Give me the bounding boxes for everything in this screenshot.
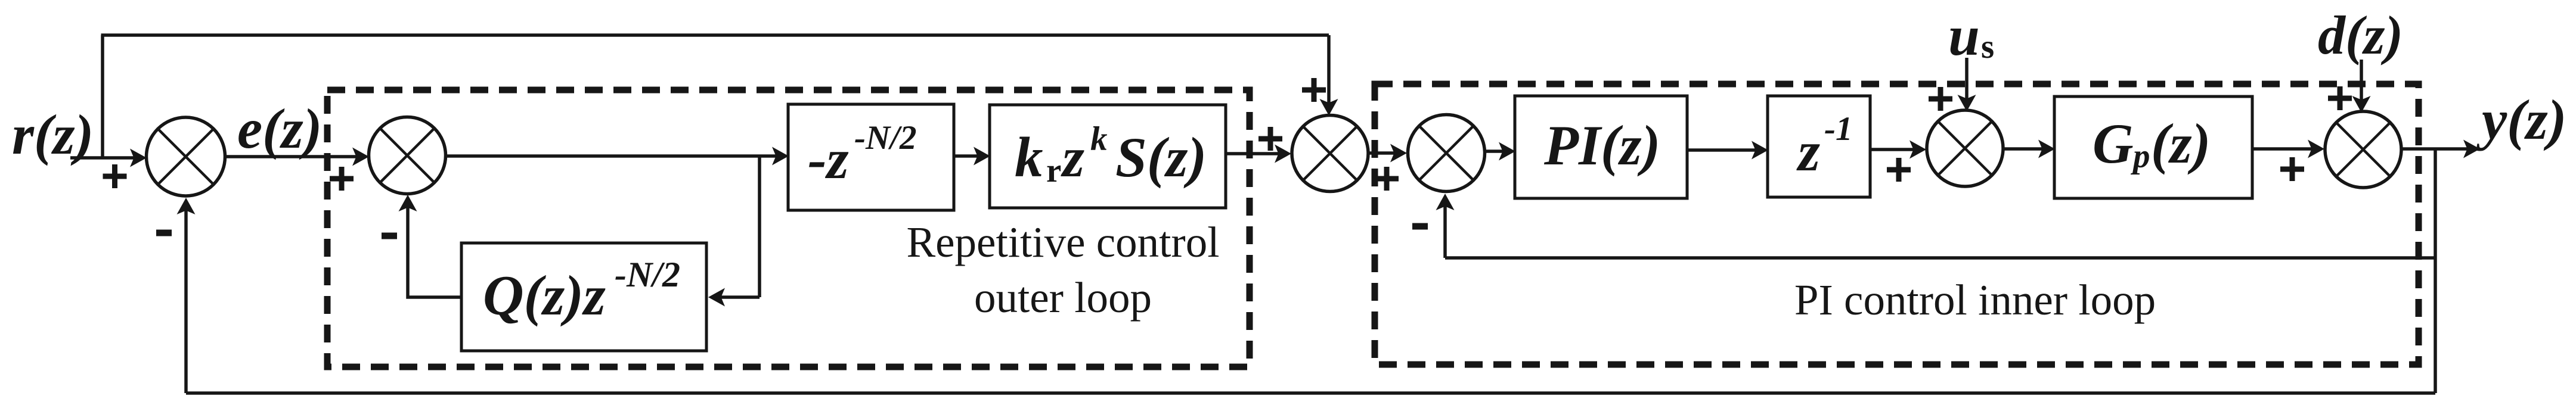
arrow into sum3	[1275, 145, 1291, 163]
arrowheads	[130, 95, 2480, 307]
arrow into sum6	[2308, 140, 2324, 158]
plus at sum5 input	[1887, 158, 1911, 182]
svg-text:-N/2: -N/2	[854, 119, 916, 157]
minus at sum1 bottom	[156, 230, 172, 236]
block -z^-N/2	[788, 104, 954, 210]
wire: z-1 to sum5	[1870, 148, 1921, 151]
svg-text:-N/2: -N/2	[615, 255, 680, 294]
svg-text:PI(z): PI(z)	[1543, 114, 1660, 177]
wire: sum2 to block -z^-N/2	[445, 154, 784, 158]
svg-text:z: z	[1061, 126, 1084, 189]
blocks	[461, 96, 2252, 351]
plus/minus signs	[103, 78, 2352, 239]
sum junction 3	[1292, 116, 1368, 192]
arrow into B5 z-1	[1752, 141, 1768, 160]
plus at sum6 top	[2328, 86, 2352, 110]
svg-text:(z): (z)	[2151, 112, 2211, 175]
svg-text:G: G	[2093, 112, 2134, 175]
arrow into Q right	[708, 288, 725, 307]
minus at sum4 bottom	[1412, 223, 1428, 230]
arrow into sum2	[352, 148, 369, 166]
svg-text:s: s	[1981, 28, 1994, 66]
wire: Q out to left	[408, 200, 461, 297]
svg-text:r(z): r(z)	[12, 103, 94, 166]
dashed box: PI control inner loop	[1375, 84, 2419, 364]
plus at sum4 input	[1375, 167, 1399, 191]
wire: sum1 to sum2, e(z)	[225, 155, 364, 158]
block PI(z)	[1515, 96, 1687, 198]
wire: branch vertical up from input	[101, 35, 104, 158]
wire: B2 to sum3	[1226, 152, 1287, 155]
wire: Gp to sum6	[2252, 147, 2320, 151]
wire: inner feedback horizontal	[1445, 256, 2435, 260]
arrow into B6 Gp	[2038, 140, 2055, 158]
sum junction 5	[1927, 110, 2003, 186]
svg-text:r: r	[1046, 152, 1061, 189]
arrow into sum1	[130, 149, 147, 167]
wire: output tap down	[2434, 149, 2437, 393]
wire: outer feedback bottom	[186, 391, 2435, 395]
wire: u_s down into sum5	[1965, 58, 1969, 107]
svg-text:-z: -z	[808, 127, 849, 191]
block kr z^k S(z)	[990, 105, 1226, 208]
svg-text:u: u	[1948, 4, 1980, 67]
sum junction 1	[147, 117, 225, 196]
sum junction 2	[369, 117, 446, 194]
plus at sum3 top	[1302, 78, 1326, 102]
svg-text:y(z): y(z)	[2476, 88, 2566, 151]
wire: drop into sum 3 top	[1327, 35, 1331, 111]
wire: top feedforward line	[101, 33, 1329, 37]
plus at sum5 top	[1929, 87, 1952, 111]
arrow into sum3 top	[1320, 99, 1338, 116]
wire: sum5 to Gp	[2003, 147, 2050, 151]
svg-text:Repetitive control: Repetitive control	[906, 218, 1219, 266]
wire: sum4 to PI	[1484, 149, 1511, 153]
plus at sum2 input	[330, 167, 354, 191]
plus at sum3 input	[1258, 127, 1282, 151]
svg-text:Q(z)z: Q(z)z	[483, 264, 606, 327]
plus at sum6 input	[2280, 157, 2304, 181]
svg-text:d(z): d(z)	[2318, 5, 2403, 66]
arrow into sum2 bottom	[399, 195, 417, 211]
arrow into sum1 bottom	[177, 198, 196, 214]
arrow into sum5	[1909, 141, 1926, 159]
arrow into B4 PI	[1499, 142, 1515, 161]
wire: d(z) down into sum6	[2360, 60, 2363, 108]
summing junctions	[147, 110, 2402, 196]
wire: input from r(z) to sum 1	[70, 156, 142, 160]
svg-text:k: k	[1015, 126, 1043, 189]
svg-text:S(z): S(z)	[1115, 126, 1207, 189]
wire: tap into Q right edge	[711, 295, 760, 299]
wire: output to y(z)	[2401, 147, 2475, 151]
block Gp(z)	[2054, 96, 2252, 198]
minus at sum2 bottom	[382, 233, 397, 239]
svg-text:p: p	[2130, 138, 2150, 175]
plus at sum1 input	[103, 164, 127, 188]
wire: inner feedback vertical up to sum4	[1443, 198, 1447, 258]
arrow into B2	[974, 147, 990, 166]
svg-text:-1: -1	[1824, 110, 1852, 148]
dashed box: repetitive control outer loop	[327, 90, 1250, 367]
wire: B1 to B2	[954, 154, 985, 158]
arrow into B1	[772, 147, 789, 166]
block z^-1	[1768, 96, 1870, 197]
svg-text:k: k	[1090, 120, 1108, 158]
arrow into sum5 top	[1958, 95, 1976, 111]
arrow into sum4 bottom	[1436, 194, 1455, 210]
arrow toward y(z)	[2463, 140, 2480, 158]
block Q(z)z^-N/2	[461, 243, 706, 351]
sum junction 4	[1408, 115, 1485, 192]
wire: outer feedback vertical up to sum1	[184, 202, 188, 393]
svg-text:e(z): e(z)	[237, 97, 322, 160]
svg-text:outer loop: outer loop	[974, 273, 1152, 322]
sum junction 6	[2325, 111, 2401, 188]
arrow into sum4	[1390, 144, 1407, 163]
svg-text:PI control inner loop: PI control inner loop	[1794, 276, 2156, 324]
arrow into sum6 top	[2352, 96, 2371, 113]
wire: sum3 to sum4	[1368, 151, 1402, 155]
wire: tap down to Q block	[758, 156, 761, 297]
svg-text:z: z	[1796, 120, 1820, 183]
wire: PI to z-1	[1687, 148, 1763, 152]
